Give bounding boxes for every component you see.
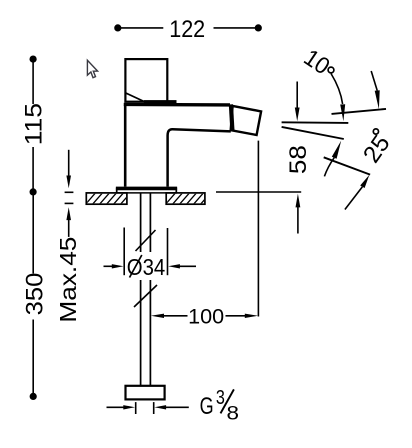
angle ref horizontal line L1 [282, 121, 349, 124]
faucet cartridge black bar under handle [144, 100, 177, 105]
dimension Ø34: right extension line [167, 228, 169, 275]
dimension G3/8: right tick [153, 402, 155, 414]
pipe break slash upper [136, 230, 156, 251]
dimension Max.45: bottom tick [65, 202, 74, 204]
dimension Ø34: left extension line [123, 228, 125, 276]
svg-text:100: 100 [188, 304, 224, 328]
angle ref 25-degree line L5 [324, 157, 370, 174]
25 degree upper arrowhead (down onto L3) [375, 90, 380, 109]
dimension G3/8: right arrow (points left) [154, 405, 166, 409]
faucet body top edge / spout top [124, 103, 230, 107]
base plate thick top line [116, 187, 177, 191]
base plate bottom line [116, 192, 177, 194]
supply pipe left wall [140, 194, 142, 386]
svg-text:3: 3 [216, 386, 225, 409]
dimension 58: lower arrowhead (up onto counter line) [296, 194, 301, 208]
dimension 58: upper arrow stem [296, 82, 298, 109]
faucet aerator quad [231, 106, 261, 135]
svg-text:O34: O34 [127, 254, 166, 280]
dimension 58: lower stem [297, 207, 299, 234]
25 degree lower arrowhead (up onto L5 end) [360, 175, 369, 188]
25 degree lower arrow stem [345, 187, 363, 210]
dimension Max.45: upper arrowhead (down) [66, 176, 71, 189]
dimension 115 left: bottom dot (shared with 350) [29, 188, 36, 195]
dimension G3/8: left arrow (points right) [107, 406, 125, 408]
svg-text:8: 8 [227, 403, 240, 425]
dimension 122 top: right line [214, 27, 259, 29]
dimension 115 left: upper line [32, 59, 34, 104]
G 3/8 text: fraction slash [221, 389, 234, 413]
10 degree lower curved arrow: arc [324, 158, 334, 177]
dimension 350 left: lower line [32, 320, 34, 397]
right vertical extension line (under aerator down to 100 dim) [257, 141, 259, 317]
dimension Max.45: lower stem [68, 220, 70, 237]
10 degree arc arrowhead (down onto L1) [340, 104, 345, 121]
25 degree upper arrow stem [371, 71, 377, 91]
pipe break whiteout behind Ø34 text [127, 252, 165, 280]
base plate left side [116, 188, 118, 194]
dimension 115 left: top dot [29, 56, 36, 63]
10 degree leader arc [331, 74, 343, 105]
svg-text:Max.45: Max.45 [55, 237, 81, 323]
dimension 122 top: right dot [255, 24, 262, 31]
countertop right hatched block [164, 190, 213, 206]
10 degree lower curved arrowhead (up onto L2 end) [332, 141, 341, 159]
supply pipe right wall [149, 194, 151, 386]
dimension Ø34: right arrow [168, 264, 180, 268]
pipe connector G3/8 rectangle [126, 386, 165, 400]
svg-text:122: 122 [169, 16, 205, 43]
countertop left hatched block [84, 190, 140, 206]
faucet handle square [125, 59, 167, 102]
dimension 122 top: left line [118, 27, 164, 29]
svg-text:58: 58 [285, 145, 312, 174]
dimension Max.45: upper arrow stem [68, 150, 70, 177]
dimension Max.45: lower arrowhead (up) [66, 207, 71, 220]
dimension Ø34: left arrow [104, 265, 113, 267]
faucet aerator joint thick band [231, 104, 233, 130]
dimension 115 left: lower line [32, 147, 34, 192]
svg-text:350: 350 [21, 273, 48, 316]
dimension 100: left arrow (points left at pipe) [151, 314, 164, 318]
angle ref line L3 (upper right) [332, 109, 387, 114]
angle ref 10-degree line L2 [282, 127, 344, 139]
dimension G3/8: left tick [135, 402, 137, 414]
dimension 350 left: bottom dot [30, 393, 37, 400]
right counter surface reference line [216, 191, 301, 193]
dimension Max.45: top tick [65, 191, 74, 193]
dimension 58: upper arrowhead (down onto horizontal line L1) [295, 108, 300, 122]
faucet spout underside + inner corner + body right edge [168, 129, 231, 186]
base plate right side [175, 188, 177, 194]
dimension 350 left: upper line [32, 192, 34, 274]
dimension 122 top: left dot [114, 24, 121, 31]
dimension 100: right line + arrow (points right at extension line) [226, 315, 248, 317]
faucet body left edge [124, 103, 127, 187]
faucet handle lever diagonal [126, 93, 144, 101]
pipe break slash lower [134, 285, 157, 307]
svg-text:G: G [200, 393, 214, 420]
mouse cursor [87, 60, 97, 77]
svg-text:115: 115 [21, 103, 48, 145]
